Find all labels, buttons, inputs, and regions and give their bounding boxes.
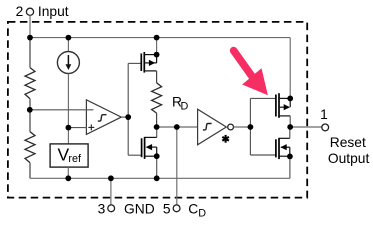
inverter U2 (schmitt, with bubble) bbox=[198, 109, 234, 145]
resistor RD bbox=[152, 71, 189, 127]
node CD tap bbox=[174, 124, 180, 130]
svg-text:D: D bbox=[181, 101, 189, 113]
svg-text:GND: GND bbox=[124, 201, 155, 216]
wire Q4 drain rise bbox=[289, 127, 291, 138]
wire CD tap drop bbox=[176, 127, 178, 205]
wire Q2 gate lead bbox=[128, 154, 141, 156]
op-amp U1 comparator bbox=[86, 100, 121, 135]
wire rail drop to Q1 source bbox=[156, 38, 158, 55]
node comparator output bbox=[125, 114, 131, 120]
svg-text:D: D bbox=[198, 208, 206, 219]
wire input drop bbox=[29, 15, 31, 37]
wire node to inverter input bbox=[157, 126, 198, 128]
junction ground rail / Vref bbox=[65, 175, 71, 181]
svg-text:Reset: Reset bbox=[330, 135, 366, 150]
transistor Q2 (NMOS middle) bbox=[142, 137, 157, 178]
svg-text:Input: Input bbox=[38, 4, 69, 19]
asterisk marker bbox=[222, 135, 229, 143]
pin 1 Reset Output terminal bbox=[320, 107, 369, 166]
wire output to pin 1 bbox=[290, 126, 322, 128]
transistor Q3 (PMOS output) bbox=[276, 93, 290, 118]
wire Q2 drain rise bbox=[156, 127, 158, 137]
IC boundary dashed box bbox=[8, 22, 307, 198]
svg-text:1: 1 bbox=[320, 107, 328, 122]
wire Q3 drain drop bbox=[289, 116, 291, 127]
transistor Q1 (PMOS middle) bbox=[141, 52, 156, 73]
junction Q4 source-body tie bbox=[287, 154, 293, 160]
svg-text:2: 2 bbox=[16, 4, 24, 19]
wire ground rail bbox=[30, 177, 290, 179]
wire Q1 gate lead bbox=[128, 62, 141, 64]
node inverter output / gates bbox=[248, 124, 254, 130]
node Vref / non-inverting input bbox=[66, 125, 72, 131]
junction Q3 source-body tie bbox=[287, 96, 293, 102]
wire Vref to ground rail bbox=[67, 167, 69, 178]
node reset output bbox=[287, 124, 293, 130]
wire top supply rail bbox=[30, 37, 290, 39]
svg-text:C: C bbox=[188, 201, 198, 216]
resistor R2 (divider bottom) bbox=[25, 110, 35, 179]
wire comparator output bbox=[121, 116, 128, 118]
plus marker bbox=[88, 124, 94, 130]
wire output gate net vertical bbox=[249, 98, 251, 155]
wire non-inverting input from Vref node bbox=[68, 127, 87, 129]
svg-text:Output: Output bbox=[328, 151, 370, 166]
junction ground rail / GND pin bbox=[108, 175, 114, 181]
wire Q3 gate lead bbox=[250, 97, 276, 99]
junction rail / current source bbox=[66, 35, 72, 41]
svg-text:3: 3 bbox=[98, 201, 106, 216]
pin 2 Input terminal bbox=[16, 4, 69, 19]
resistor R1 (divider top) bbox=[25, 38, 35, 110]
wire inverter output to gate node bbox=[234, 126, 251, 128]
svg-text:5: 5 bbox=[163, 201, 171, 216]
wire rail right drop to Q3 bbox=[289, 38, 291, 99]
junction ground rail / Q2 source bbox=[154, 175, 160, 181]
wire inverting input from divider bbox=[30, 109, 94, 111]
wire Q4 gate lead bbox=[250, 154, 276, 156]
svg-text:ref: ref bbox=[68, 153, 82, 165]
current source I1 bbox=[57, 38, 79, 144]
pin 5 CD terminal bbox=[163, 201, 206, 219]
wire Q4 source drop to ground rail bbox=[289, 156, 291, 178]
wire gate net vertical (Q1/Q2 gates) bbox=[127, 63, 129, 155]
transistor Q4 (NMOS output) bbox=[276, 138, 290, 159]
wire GND drop bbox=[110, 178, 112, 205]
annotation arrow (pink) bbox=[234, 51, 268, 96]
node divider midpoint bbox=[27, 107, 33, 113]
junction Q1 source-body tie bbox=[154, 52, 160, 58]
node RD / Q2 drain bbox=[154, 124, 160, 130]
junction rail / Q1 source bbox=[154, 35, 160, 41]
junction Q2 source-body tie bbox=[154, 153, 160, 159]
pin 3 GND terminal bbox=[98, 201, 155, 216]
Vref box bbox=[50, 144, 88, 167]
junction input rail / divider bbox=[27, 35, 33, 41]
